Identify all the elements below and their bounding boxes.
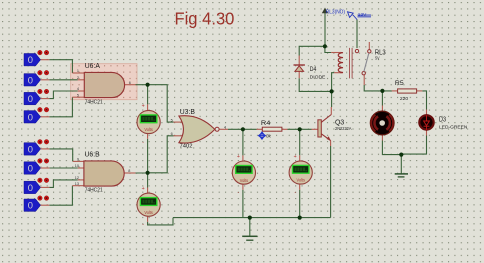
svg-text:4: 4 <box>224 126 226 130</box>
svg-text:6: 6 <box>129 81 131 85</box>
svg-text:12: 12 <box>75 176 79 180</box>
svg-text:DIODE: DIODE <box>310 75 326 80</box>
svg-text:U6:B: U6:B <box>85 152 101 159</box>
svg-text:D3: D3 <box>439 116 446 123</box>
svg-text:6: 6 <box>171 132 173 136</box>
svg-text:5: 5 <box>77 93 79 97</box>
svg-text:RL3(NO): RL3(NO) <box>326 9 345 15</box>
svg-text:8: 8 <box>128 169 130 173</box>
svg-text:1: 1 <box>77 69 79 73</box>
svg-text:D4: D4 <box>310 66 317 73</box>
svg-text:R4: R4 <box>261 120 271 127</box>
svg-text:R5: R5 <box>395 80 404 87</box>
svg-text:9: 9 <box>77 158 79 162</box>
svg-text:U6:A: U6:A <box>85 63 101 70</box>
svg-text:4: 4 <box>77 87 79 91</box>
svg-text:0k: 0k <box>266 133 272 138</box>
svg-text:LED-GREEN: LED-GREEN <box>439 125 467 130</box>
svg-text:Fig 4.30: Fig 4.30 <box>175 9 235 29</box>
svg-text:7402: 7402 <box>180 143 193 149</box>
svg-text:74HC21: 74HC21 <box>85 100 103 106</box>
svg-text:5V: 5V <box>375 55 380 60</box>
svg-text:U3:B: U3:B <box>180 109 196 116</box>
svg-text:220: 220 <box>400 96 409 101</box>
svg-text:13: 13 <box>75 182 79 186</box>
svg-text:2: 2 <box>77 76 79 80</box>
svg-text:10: 10 <box>75 164 79 168</box>
svg-text:2N2222A: 2N2222A <box>335 126 352 131</box>
svg-text:5: 5 <box>171 118 173 122</box>
svg-text:74HC21: 74HC21 <box>85 187 103 193</box>
